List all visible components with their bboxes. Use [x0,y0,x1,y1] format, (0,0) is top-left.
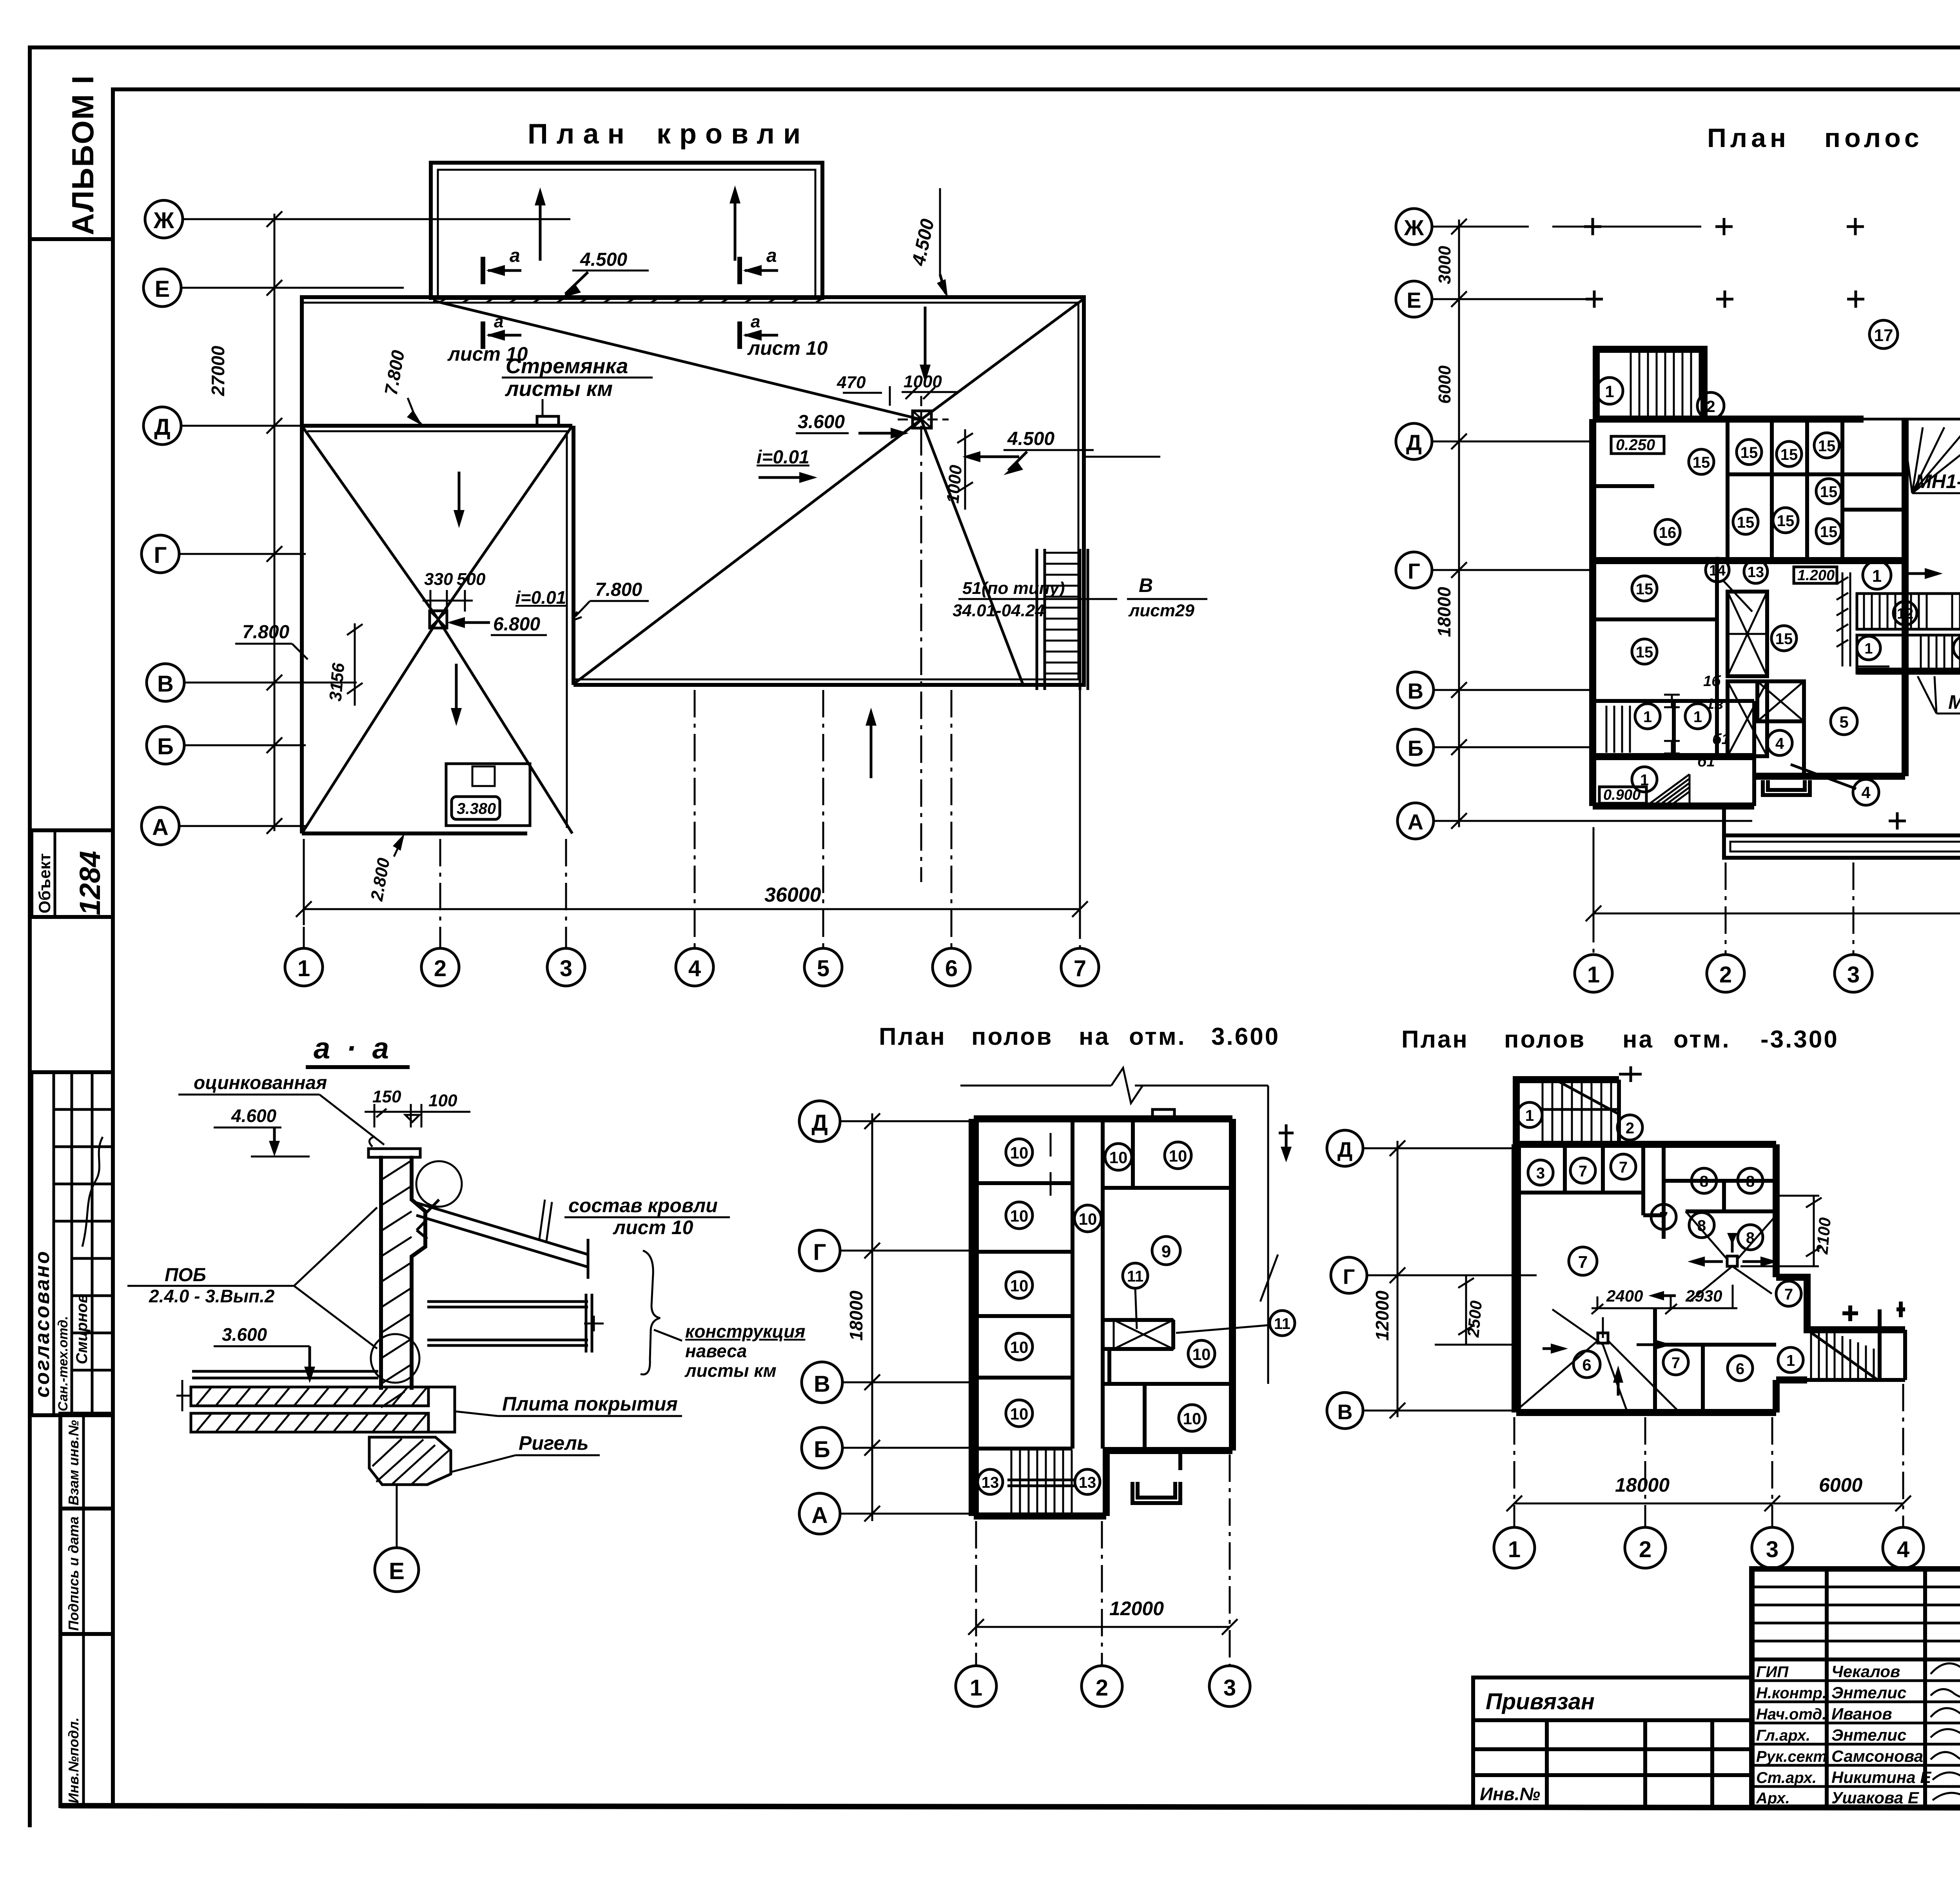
axis circle E2 [1396,281,1432,317]
svg-text:3.380: 3.380 [457,800,496,817]
roof funnel center right [898,396,949,443]
axis circle G4 [1331,1257,1367,1293]
svg-text:15: 15 [1693,454,1710,471]
svg-text:100: 100 [428,1091,457,1110]
ladder note Stremyanka [502,354,653,426]
svg-text:Объект: Объект [35,853,54,913]
svg-text:Нач.отд.: Нач.отд. [1756,1706,1826,1723]
svg-text:Ушакова Е: Ушакова Е [1831,1788,1920,1807]
svg-text:Е: Е [155,276,170,302]
main left block walls [1593,419,1960,806]
svg-text:Сан.-тех.отд.: Сан.-тех.отд. [56,1316,71,1411]
svg-text:4.600: 4.600 [231,1106,277,1126]
svg-text:11: 11 [1127,1268,1143,1285]
axis circle V3 [802,1362,842,1403]
svg-text:1: 1 [1587,962,1600,988]
signatures squiggles [1931,1654,1960,1801]
svg-text:б1: б1 [1697,753,1715,770]
axis circle A2 [1397,803,1434,839]
svg-text:Б: Б [157,734,174,759]
axis circle V4 [1327,1392,1363,1429]
svg-text:2: 2 [1719,962,1732,988]
svg-text:согласовано: согласовано [31,1250,54,1398]
svg-text:18000: 18000 [1615,1474,1670,1496]
column dash lines plan2 [1593,827,1960,954]
svg-text:б1: б1 [1712,731,1730,748]
axis circle G [142,535,179,573]
title a-a [306,1032,410,1067]
top door tick [1152,1109,1174,1119]
title block main frame [1752,1569,1960,1807]
svg-text:3: 3 [1847,962,1860,988]
svg-text:МН 102-6: МН 102-6 [1948,691,1960,713]
svg-text:15: 15 [1820,523,1838,541]
axis circle A [142,807,179,845]
svg-text:13: 13 [982,1474,999,1491]
vertical dim 18000 plan3 [846,1113,880,1521]
svg-text:3.600: 3.600 [798,412,845,432]
svg-text:Взам инв.№: Взам инв.№ [65,1420,82,1505]
svg-text:10: 10 [1169,1147,1187,1165]
plan3 outer walls [974,1119,1232,1516]
svg-text:7: 7 [1619,1159,1628,1176]
axis circle D [143,407,181,445]
dim 4.500 canopy top [561,249,649,298]
svg-text:2400: 2400 [1606,1287,1643,1305]
svg-text:10: 10 [1192,1345,1211,1363]
svg-text:План: План [528,118,633,150]
svg-text:3: 3 [1536,1165,1545,1182]
main roof outline [302,297,1084,685]
platform and porches [1724,722,1960,866]
svg-text:5: 5 [1839,713,1848,731]
vertical dimension line 27000 [208,211,282,834]
svg-text:16: 16 [1659,524,1677,541]
title plan polov -3.300 [1401,1026,1839,1053]
detail circles [371,1161,462,1383]
roof funnel center left square [430,611,447,628]
svg-text:500: 500 [457,570,486,589]
svg-text:Стремянка: Стремянка [506,354,628,378]
svg-text:Никитина Е: Никитина Е [1831,1768,1932,1786]
top stair block [1596,349,1724,419]
svg-text:4: 4 [1897,1537,1909,1562]
plan4 top stair block [1516,1066,1642,1144]
svg-text:Иванов: Иванов [1831,1705,1892,1723]
svg-text:2: 2 [434,956,446,981]
svg-text:15: 15 [1636,581,1653,598]
section mark a upper-left [483,245,521,284]
note sostav krovli [564,1195,730,1238]
rigel hatched [369,1437,451,1485]
canopy rectangle [431,163,822,298]
rooms 14 13 15 and level 1.200 [1706,558,1837,651]
axis circle Zh2 [1396,209,1432,245]
center dash line from funnel [920,428,922,882]
svg-text:1: 1 [1643,708,1652,726]
roof slope beam [416,1200,588,1279]
dim 4.500 right side [1004,428,1160,475]
svg-text:13: 13 [1079,1474,1096,1491]
middle bottom block [1754,561,1905,805]
title: Plan krovli [528,118,809,150]
svg-text:2: 2 [1096,1675,1108,1701]
svg-text:15: 15 [1777,512,1795,530]
svg-text:6: 6 [945,956,958,981]
svg-text:Привязан: Привязан [1486,1689,1595,1714]
axis circle Zh [145,200,183,238]
plan4 bottom dims [1506,1384,1911,1527]
dim i=0.01 left square [515,587,566,608]
svg-text:0.250: 0.250 [1616,436,1655,454]
svg-text:7: 7 [1671,1354,1680,1372]
dim 2.800 rotated bottom [367,833,405,903]
svg-text:4.500: 4.500 [580,249,627,270]
svg-text:Е: Е [389,1558,405,1584]
svg-text:8: 8 [1746,1173,1755,1190]
leader MN 102-6 [1918,676,1960,713]
svg-text:а: а [510,245,520,266]
svg-text:15: 15 [1740,444,1758,461]
corridor room 1 with arrow [1863,561,1943,589]
svg-text:Ст.арх.: Ст.арх. [1756,1769,1817,1786]
svg-text:15: 15 [1818,438,1836,455]
svg-text:Энтелис: Энтелис [1831,1726,1906,1744]
svg-text:1: 1 [970,1675,982,1701]
svg-text:14: 14 [1709,563,1726,579]
svg-text:3: 3 [560,956,572,981]
svg-text:ГИП: ГИП [1756,1663,1789,1681]
axis lines plan3 [840,1121,972,1514]
svg-text:10: 10 [1010,1405,1029,1423]
axis circle D2 [1396,423,1432,459]
section mark a lower-left + sheet ref [447,312,528,365]
svg-text:34.01-04.24: 34.01-04.24 [953,601,1045,620]
svg-text:17: 17 [1874,326,1893,345]
svg-text:330: 330 [424,570,453,589]
vertical dim line 3000 6000 18000 [1434,219,1467,829]
note otsinkovannaya [178,1073,384,1145]
svg-text:18000: 18000 [846,1291,866,1341]
svg-text:В: В [157,671,174,697]
svg-text:2: 2 [1706,397,1715,416]
svg-text:3.600: 3.600 [1211,1023,1280,1050]
svg-text:Смирнов: Смирнов [73,1294,91,1364]
svg-text:Г: Г [1408,559,1420,583]
level 4.600 [214,1106,310,1156]
svg-text:3000: 3000 [1435,246,1454,284]
dim 3156 rotated [326,623,363,706]
svg-text:конструкция: конструкция [685,1321,805,1342]
svg-text:13: 13 [1748,564,1764,581]
axis lines plan2 [1432,227,1752,821]
svg-text:6000: 6000 [1819,1474,1862,1496]
roof slab hatched strips [176,1380,428,1432]
svg-text:1000: 1000 [904,372,942,391]
svg-text:полос: полос [1824,123,1923,153]
svg-text:7: 7 [1579,1163,1587,1180]
top dim line with break [960,1068,1294,1384]
svg-text:АЛЬБОМ I: АЛЬБОМ I [65,75,100,235]
svg-text:отм.: отм. [1673,1026,1731,1053]
svg-text:на: на [1622,1026,1654,1053]
bottom-left annex rooms [1606,673,1730,770]
axis circle B [147,726,184,764]
svg-text:состав кровли: состав кровли [568,1195,718,1216]
svg-text:2.4.0 - 3.Вып.2: 2.4.0 - 3.Вып.2 [149,1286,275,1306]
svg-text:15: 15 [1775,630,1793,648]
svg-text:на: на [1079,1023,1110,1050]
svg-text:2.800: 2.800 [367,856,394,902]
svg-text:Д: Д [1338,1138,1352,1162]
leader MN1-14 [1903,427,1960,493]
svg-text:кровли: кровли [657,118,809,150]
small dim ticks cluster near stairs [1837,572,1889,666]
svg-text:Д: Д [811,1110,828,1136]
svg-text:2: 2 [1639,1537,1651,1562]
svg-text:Арх.: Арх. [1756,1790,1790,1807]
room 17 [1869,320,1898,349]
axis circle D4 [1327,1130,1363,1166]
brace and note konstruktsiya navesa [641,1251,805,1381]
note 51 po tipu [953,574,1207,620]
svg-text:11: 11 [1274,1315,1290,1333]
svg-text:1б: 1б [1703,673,1721,690]
svg-text:36000: 36000 [764,884,821,906]
svg-text:а: а [494,312,503,331]
rooms 15 16 left grid [1632,433,1841,664]
svg-text:Б: Б [1408,736,1423,761]
dims 150 100 [365,1087,470,1127]
privyazan table [1473,1678,1752,1807]
svg-text:лист 10: лист 10 [613,1216,693,1238]
plan4 main outline [1516,1144,1776,1412]
svg-text:лист 10: лист 10 [747,337,828,359]
svg-text:В: В [1338,1400,1353,1424]
svg-text:Подпись и дата: Подпись и дата [65,1516,82,1631]
svg-text:отм.: отм. [1129,1023,1186,1050]
plan3 interior [974,1119,1232,1449]
svg-text:15: 15 [1737,514,1755,531]
svg-text:1: 1 [1605,382,1614,401]
axis lines plan4 [1363,1148,1537,1411]
canopy arrows [535,185,740,261]
svg-text:-3.300: -3.300 [1760,1026,1839,1053]
column grid dash lines roof [304,690,1080,948]
svg-text:Ж: Ж [1404,215,1424,240]
svg-text:7: 7 [1074,956,1086,981]
roof access ladder right [1037,549,1088,690]
svg-text:51(по типу): 51(по типу) [962,579,1065,598]
svg-text:Г: Г [154,543,167,568]
svg-text:Энтелис: Энтелис [1831,1683,1906,1702]
plan3 column circles [956,1666,996,1707]
title: Plan polov na otm 0.000 0.300 [1707,123,1960,153]
svg-text:10: 10 [1010,1338,1029,1356]
plan3 bottom dim 12000 [968,1454,1238,1666]
svg-text:4: 4 [688,956,701,981]
svg-text:2930: 2930 [1685,1287,1722,1305]
svg-text:В: В [814,1371,830,1397]
signature table left [1752,1569,1960,1807]
vent shaft leaders 11 [1123,1263,1295,1336]
svg-text:5: 5 [817,956,829,981]
svg-text:оцинкованная: оцинкованная [194,1073,327,1093]
svg-text:10: 10 [1079,1210,1097,1228]
plan4 middle dims [1435,1275,1737,1345]
plan4 right stair annex [1776,1277,1905,1380]
title plan polov 3.600 [879,1023,1280,1050]
object number box [31,830,113,917]
axis circle G3 [799,1230,840,1271]
svg-text:а: а [766,245,777,266]
plan3 bottom right порог [1132,1451,1180,1503]
roof ridge lines [302,300,1082,833]
plus markers grid [1584,218,1960,830]
svg-text:10: 10 [1109,1148,1128,1167]
note POB [127,1207,377,1349]
axis circle B2 [1397,729,1434,765]
svg-text:1в: 1в [1706,696,1723,712]
axis circle E section [375,1486,419,1592]
parapet notch with 3.380 [446,764,530,826]
dim 7.800 rotated left [381,349,423,426]
B axis wall [1857,668,1960,675]
plan4 lower funnel [1516,1309,1678,1411]
svg-text:10: 10 [1010,1276,1029,1295]
canopy I-beam [427,1294,604,1353]
bottom dimension 36000 plan2 [1586,761,1960,929]
svg-text:1: 1 [1864,641,1873,657]
svg-text:Д: Д [1406,430,1422,455]
svg-text:Инв.№: Инв.№ [1480,1784,1540,1804]
axis circle B3 [802,1427,842,1468]
svg-text:1.200: 1.200 [1797,567,1835,584]
section mark a lower-right + sheet ref [740,312,828,359]
svg-text:8: 8 [1700,1173,1708,1190]
hatched wall band on canopy base [439,297,825,303]
axis lines [179,219,570,826]
svg-text:листы км: листы км [684,1360,777,1381]
album label [30,75,113,239]
svg-text:Чекалов: Чекалов [1831,1662,1900,1681]
svg-text:1: 1 [1872,566,1882,586]
svg-text:В: В [1139,574,1153,596]
axis circle G2 [1396,552,1432,588]
svg-text:10: 10 [1010,1207,1029,1225]
svg-text:Б: Б [814,1437,830,1462]
axis circle A3 [799,1493,840,1534]
svg-text:27000: 27000 [208,346,228,396]
svg-text:7: 7 [1659,1209,1668,1226]
svg-text:6: 6 [1582,1356,1591,1374]
svg-text:Гл.арх.: Гл.арх. [1756,1727,1810,1744]
svg-text:лист29: лист29 [1128,601,1194,620]
svg-text:15: 15 [1780,446,1798,463]
svg-text:470: 470 [837,373,866,392]
svg-text:18000: 18000 [1434,587,1454,637]
svg-text:А: А [1408,810,1423,834]
svg-text:А: А [811,1503,828,1528]
svg-text:7.800: 7.800 [242,622,289,643]
svg-text:Инв.№подл.: Инв.№подл. [65,1717,82,1803]
left square roof block [302,426,572,833]
svg-text:12000: 12000 [1109,1598,1164,1619]
svg-text:2: 2 [1626,1120,1634,1137]
svg-text:листы км: листы км [505,377,613,401]
svg-text:В: В [1408,679,1423,703]
svg-text:полов: полов [1504,1026,1586,1053]
svg-text:План: План [1401,1026,1469,1053]
svg-text:1000: 1000 [943,464,965,504]
svg-text:6: 6 [1736,1360,1744,1378]
svg-text:9: 9 [1161,1242,1171,1261]
svg-text:i=0.01: i=0.01 [515,587,566,608]
svg-text:1: 1 [1525,1107,1534,1124]
dim i=0.01 main roof [757,447,817,483]
svg-text:План: План [1707,123,1790,153]
plan4 bottom rooms [1655,1281,1803,1412]
svg-text:7: 7 [1578,1253,1588,1272]
notes plita pokrytiya rigel [451,1393,682,1472]
svg-text:План: План [879,1023,946,1050]
column circles 1-7 roof [285,948,323,986]
svg-text:а: а [751,312,760,331]
section mark a upper-right [740,245,778,284]
svg-text:10: 10 [1010,1144,1029,1162]
svg-text:3: 3 [1223,1675,1236,1701]
plan4 column circles [1494,1527,1535,1568]
svg-text:А: А [152,815,169,840]
dim 7.800 inner [573,579,649,620]
svg-text:15: 15 [1636,644,1653,661]
svg-text:Плита покрытия: Плита покрытия [502,1393,678,1415]
svg-text:1284: 1284 [74,851,106,915]
plan4 right rooms 8 [1651,1144,1776,1250]
svg-text:полов: полов [971,1023,1053,1050]
svg-text:7.800: 7.800 [595,579,642,600]
svg-text:Самсонова: Самсонова [1831,1747,1923,1765]
axis circle E [143,269,181,307]
svg-text:1: 1 [1786,1352,1795,1369]
svg-text:Е: Е [1406,288,1421,312]
parapet column hatched [368,1136,425,1407]
svg-text:1: 1 [298,956,310,981]
dim 7.800 left [235,622,308,659]
plan4 funnel right [1686,1196,1834,1302]
svg-text:Г: Г [813,1240,826,1265]
dim 6.800 [447,614,547,635]
svg-text:3: 3 [1766,1537,1779,1562]
main stairs center [1857,594,1960,673]
main roof slope arrows [451,307,931,778]
svg-text:4.500: 4.500 [908,217,938,268]
svg-text:150: 150 [372,1087,401,1106]
svg-text:4: 4 [1861,783,1871,802]
bottom dimension 36000 roof [296,690,1088,925]
svg-text:4: 4 [1775,735,1784,752]
svg-text:3156: 3156 [326,662,348,702]
svg-text:Г: Г [1343,1265,1355,1289]
svg-text:12000: 12000 [1372,1291,1392,1341]
axis circle D3 [799,1101,840,1142]
column circles 1-7 plan2 [1575,955,1612,992]
svg-text:ПОБ: ПОБ [165,1265,206,1285]
axis circle V2 [1397,672,1434,708]
level 3.600 [214,1324,315,1383]
svg-text:на: на [1958,123,1960,153]
svg-text:1: 1 [1508,1537,1521,1562]
